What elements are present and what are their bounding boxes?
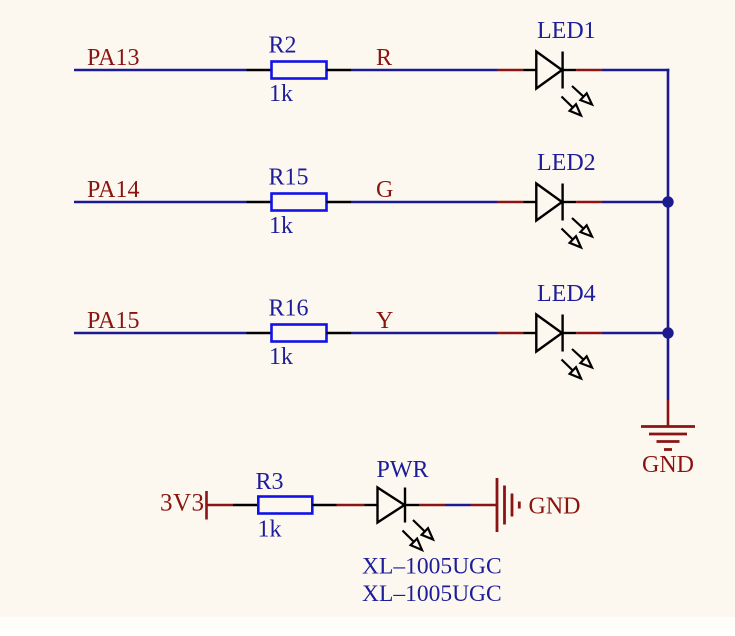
svg-text:1k: 1k	[269, 344, 293, 370]
svg-text:XL–1005UGC: XL–1005UGC	[362, 581, 502, 607]
resistor R15	[247, 194, 352, 211]
LED PWR	[365, 488, 434, 551]
svg-text:PWR: PWR	[377, 457, 429, 483]
svg-text:R: R	[376, 45, 392, 71]
GND bus vertical wire	[667, 69, 670, 400]
wire PA14 to R15	[74, 201, 247, 204]
wire R16 to LED4, node Y	[351, 332, 497, 335]
svg-text:PA15: PA15	[87, 308, 139, 334]
svg-text:1k: 1k	[258, 517, 282, 543]
wire R2 to LED1, node R	[351, 69, 497, 72]
LED4 cathode pin (red)	[576, 332, 601, 335]
wire PA13 to R2	[74, 69, 247, 72]
wire LED1 to GND bus	[602, 69, 670, 72]
svg-text:R2: R2	[269, 33, 297, 59]
svg-text:PA13: PA13	[87, 45, 139, 71]
3V3 port pin bar	[205, 491, 208, 520]
ground symbol GND (top circuit)	[641, 400, 695, 450]
PWR LED cathode pin (red)	[419, 504, 445, 507]
LED2 anode pin (red)	[497, 201, 524, 204]
svg-text:LED2: LED2	[537, 150, 596, 176]
svg-text:GND: GND	[529, 494, 581, 520]
resistor R3	[233, 497, 337, 514]
LED4 anode pin (red)	[497, 332, 524, 335]
svg-text:3V3: 3V3	[160, 490, 205, 517]
svg-text:1k: 1k	[269, 213, 293, 239]
wire R15 to LED2, node G	[351, 201, 497, 204]
svg-text:LED4: LED4	[537, 281, 596, 307]
svg-text:GND: GND	[642, 452, 694, 478]
resistor R16	[247, 325, 352, 342]
svg-text:1k: 1k	[269, 81, 293, 107]
LED LED2	[524, 184, 593, 248]
svg-text:R16: R16	[269, 296, 309, 322]
svg-text:Y: Y	[376, 308, 393, 334]
wire LED2 to GND bus	[602, 201, 670, 204]
svg-text:LED1: LED1	[537, 18, 596, 44]
resistor R2	[247, 62, 352, 79]
wire LED4 to GND bus	[602, 332, 670, 335]
svg-text:R3: R3	[256, 469, 284, 495]
LED1 anode pin (red)	[497, 69, 524, 72]
LED LED1	[524, 52, 593, 116]
svg-text:G: G	[376, 177, 393, 203]
ground symbol GND (bottom, rotated)	[497, 478, 519, 532]
svg-text:XL–1005UGC: XL–1005UGC	[362, 554, 502, 580]
LED2 cathode pin (red)	[576, 201, 601, 204]
LED LED4	[524, 315, 593, 379]
wire PWR to GND port	[445, 504, 471, 507]
LED1 cathode pin (red)	[576, 69, 601, 72]
junction at LED4 row	[662, 327, 673, 338]
junction at LED2 row	[662, 196, 673, 207]
svg-text:PA14: PA14	[87, 177, 139, 203]
svg-text:R15: R15	[269, 165, 309, 191]
GND port pin (red)	[471, 504, 498, 507]
wire 3V3 to R3 (red)	[207, 504, 234, 507]
wire PA15 to R16	[74, 332, 247, 335]
PWR LED anode pin (red)	[337, 504, 365, 507]
